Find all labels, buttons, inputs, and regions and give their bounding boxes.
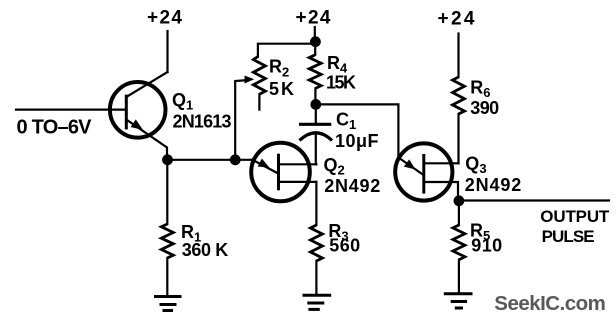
svg-text:390: 390 [470, 98, 499, 118]
svg-text:+24: +24 [438, 9, 475, 30]
svg-text:Q3: Q3 [465, 153, 486, 176]
svg-text:5K: 5K [269, 79, 296, 99]
svg-text:Q2: Q2 [324, 155, 345, 178]
svg-text:+24: +24 [147, 8, 182, 29]
svg-text:R6: R6 [470, 78, 490, 101]
svg-text:2N492: 2N492 [465, 175, 522, 195]
svg-text:Q1: Q1 [172, 90, 193, 113]
svg-text:2N1613: 2N1613 [173, 112, 232, 132]
svg-text:OUTPUT: OUTPUT [540, 207, 610, 226]
svg-text:PULSE: PULSE [542, 227, 595, 246]
svg-text:SeekIC.com: SeekIC.com [494, 292, 606, 315]
svg-text:0 TO–6V: 0 TO–6V [17, 117, 93, 139]
svg-text:560: 560 [329, 236, 360, 256]
svg-text:2N492: 2N492 [324, 176, 380, 196]
svg-text:360 K: 360 K [182, 240, 229, 260]
svg-text:+24: +24 [296, 8, 331, 29]
svg-text:R2: R2 [269, 57, 289, 80]
svg-text:C1: C1 [336, 109, 356, 132]
svg-text:910: 910 [471, 236, 502, 256]
svg-text:10μF: 10μF [335, 131, 379, 151]
svg-text:15K: 15K [326, 72, 356, 92]
